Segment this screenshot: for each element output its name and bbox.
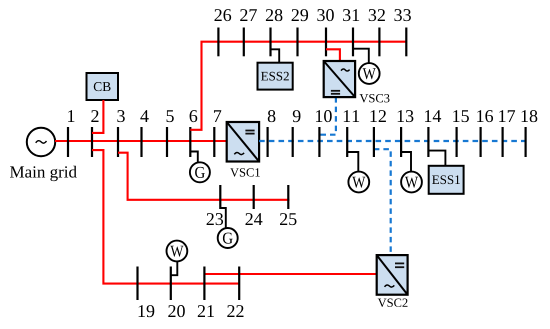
bus number 4	[140, 110, 148, 122]
bus tick 19	[136, 267, 138, 301]
bus number 5	[167, 110, 174, 122]
converter VSC1	[227, 122, 259, 162]
bus number 10	[316, 110, 332, 122]
bus number 9	[293, 110, 301, 122]
bus tick 26	[217, 28, 219, 57]
bus number 32	[369, 9, 385, 21]
feeder wire bus3 to branch 23-25 (red)	[118, 153, 290, 200]
bus number 11	[344, 110, 359, 122]
DC link VSC3 to bus10 (blue dashed)	[319, 97, 336, 135]
bus number 23	[207, 213, 224, 225]
bus number 16	[477, 110, 493, 122]
bus tick 33	[405, 28, 407, 57]
bus number 2	[91, 110, 98, 122]
ESS2 hook wire	[271, 49, 280, 62]
bus tick 32	[378, 28, 380, 57]
converter VSC2	[377, 255, 408, 295]
bus tick 31	[352, 28, 354, 57]
bus tick 3	[117, 127, 119, 157]
bus number 6	[190, 110, 198, 122]
bus tick 7	[213, 127, 215, 157]
VSC1 label	[230, 168, 260, 176]
bus tick 6	[189, 127, 191, 157]
converter VSC3	[324, 61, 355, 97]
bus tick 22	[238, 267, 240, 301]
wind unit W31 hook wire	[353, 49, 369, 64]
bus number 33	[394, 9, 410, 21]
bus tick 20	[170, 267, 172, 301]
bus tick 23	[219, 185, 221, 209]
generator G6 hook wire	[190, 152, 198, 163]
bus tick 16	[480, 127, 482, 157]
bus number 15	[453, 110, 469, 122]
main AC bus wire (red)	[55, 140, 227, 142]
bus tick 21	[203, 267, 205, 301]
bus tick 18	[524, 127, 526, 157]
bus number 19	[139, 305, 155, 317]
DC link VSC2 to bus12 (blue dashed)	[374, 149, 391, 255]
bus number 31	[343, 9, 359, 21]
bus number 21	[198, 305, 214, 317]
bus tick 1	[67, 127, 69, 157]
bus tick 15	[456, 127, 458, 157]
wind unit W11	[348, 172, 369, 193]
wind unit W11 hook wire	[347, 152, 358, 172]
bus number 3	[117, 110, 124, 122]
bus number 14	[425, 110, 441, 122]
battery ESS2	[258, 63, 293, 90]
bus tick 17	[502, 127, 504, 157]
bus number 28	[266, 9, 283, 21]
feeder wire bus6 to top branch 26-33 (red)	[190, 42, 406, 130]
bus tick 14	[427, 127, 429, 157]
main grid source	[27, 128, 55, 156]
bus tick 8	[267, 127, 269, 157]
bus tick 27	[243, 28, 245, 57]
VSC3 connector wire (red)	[326, 49, 340, 61]
bus tick 4	[140, 127, 142, 157]
generator G23 hook wire	[220, 208, 226, 228]
bus number 12	[370, 110, 385, 122]
Main grid label	[10, 166, 77, 181]
VSC3 label	[360, 94, 390, 102]
bus tick 10	[318, 127, 320, 157]
bus number 18	[522, 110, 538, 122]
bus tick 28	[269, 28, 271, 57]
bus number 29	[292, 9, 308, 21]
CB box	[87, 73, 119, 100]
CB connector wire (red)	[92, 100, 103, 133]
bus number 13	[398, 110, 414, 122]
wind unit W13 hook wire	[401, 152, 411, 172]
DC bus wire (blue dashed)	[259, 140, 525, 142]
wind unit W20 hook wire	[171, 262, 178, 276]
bus tick 25	[287, 185, 289, 209]
bus tick 9	[292, 127, 294, 157]
VSC2 label	[378, 299, 408, 307]
generator G6	[190, 162, 210, 182]
wind unit W13	[401, 172, 422, 193]
feeder wire bus21 to VSC2 (red)	[204, 273, 376, 275]
bus tick 30	[325, 28, 327, 57]
bus number 25	[280, 213, 297, 225]
bus tick 13	[400, 127, 402, 157]
bus tick 5	[166, 127, 168, 157]
bus tick 24	[253, 185, 255, 209]
bus number 17	[499, 110, 515, 122]
bus tick 29	[296, 28, 298, 57]
generator G23	[218, 228, 238, 248]
bus number 24	[245, 213, 262, 225]
bus number 26	[214, 9, 231, 21]
bus number 1	[68, 110, 74, 122]
bus number 20	[168, 305, 185, 317]
wind unit W31	[359, 63, 380, 84]
bus tick 12	[373, 127, 375, 157]
bus number 27	[240, 9, 257, 21]
bus tick 11	[346, 127, 348, 157]
ESS1 hook wire	[428, 151, 445, 166]
feeder wire bus2 to branch 19-22 (red)	[92, 150, 239, 284]
wind unit W20	[167, 241, 188, 262]
bus number 8	[268, 110, 276, 122]
battery ESS1	[429, 166, 464, 194]
bus number 30	[317, 9, 333, 21]
bus number 7	[214, 110, 221, 122]
bus tick 2	[91, 127, 93, 157]
bus number 22	[227, 305, 243, 317]
